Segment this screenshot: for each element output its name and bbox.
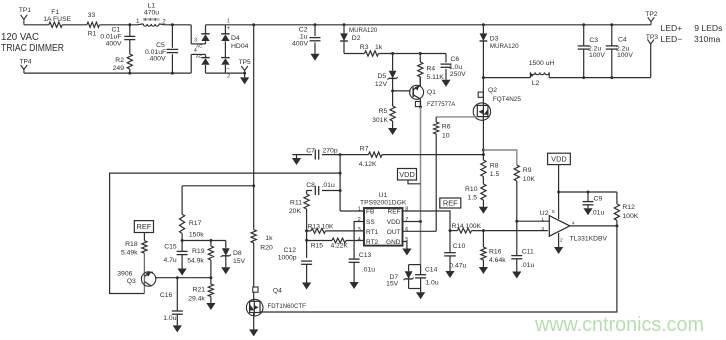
svg-text:4.7u: 4.7u: [163, 257, 176, 264]
resistor R19 54.9k: [210, 241, 212, 247]
svg-text:1500 uH: 1500 uH: [529, 60, 555, 67]
svg-text:R18: R18: [125, 241, 138, 248]
svg-text:4.12K: 4.12K: [359, 161, 377, 168]
svg-text:C10: C10: [453, 243, 466, 250]
op-amp U1 controller TPS92001DGK: [364, 208, 403, 246]
svg-text:F1: F1: [51, 9, 59, 16]
capacitor C1 0.01uF 400V: [129, 25, 131, 37]
wire divider node: [182, 240, 226, 242]
svg-text:1000p: 1000p: [278, 255, 297, 262]
svg-text:R1: R1: [88, 31, 97, 38]
capacitor C13 .01u: [349, 258, 360, 260]
inductor L1 470u: [137, 23, 143, 26]
svg-text:Q4: Q4: [273, 287, 282, 294]
svg-text:3: 3: [194, 37, 197, 43]
svg-text:100K: 100K: [622, 213, 638, 220]
svg-text:1.0u: 1.0u: [425, 280, 438, 287]
svg-text:100V: 100V: [617, 52, 633, 59]
svg-text:4.22K: 4.22K: [331, 242, 349, 249]
diode D2 MURA120: [343, 23, 346, 26]
svg-text:470u: 470u: [144, 10, 159, 17]
wire VDD to U2: [558, 165, 560, 192]
svg-text:C2: C2: [299, 26, 308, 33]
svg-text:R16: R16: [489, 248, 502, 255]
ground below TP5: [244, 73, 246, 77]
svg-text:1.0u: 1.0u: [449, 64, 462, 71]
wire input bottom rail: [24, 72, 191, 74]
wire R6 to OUT pin: [435, 134, 437, 231]
capacitor C5 0.01uF 400V: [171, 25, 173, 48]
capacitor C11 .01u: [516, 221, 518, 255]
svg-text:10: 10: [442, 133, 450, 140]
svg-text:C11: C11: [522, 248, 534, 255]
wire pin7 VDD: [403, 221, 421, 223]
wire: [62, 24, 87, 26]
svg-text:REF: REF: [443, 199, 458, 208]
svg-text:1A FUSE: 1A FUSE: [43, 16, 71, 23]
svg-text:54.9k: 54.9k: [187, 257, 204, 264]
net label REF (left): [134, 221, 153, 233]
svg-text:.01u: .01u: [362, 266, 375, 273]
svg-text:C16: C16: [160, 292, 173, 299]
net label VDD (U1): [398, 169, 417, 181]
wire pin5 GND ground: [403, 242, 407, 249]
wire Q2 source down to sense: [482, 117, 484, 160]
svg-text:R10: R10: [465, 186, 478, 193]
wire U2 V+ pin: [558, 192, 560, 219]
svg-text:Q1: Q1: [427, 89, 436, 96]
wire R9 top link (gray): [483, 150, 516, 165]
svg-text:270p: 270p: [323, 148, 338, 155]
svg-text:1k: 1k: [265, 235, 273, 242]
wire FB long feedback line: [110, 173, 341, 293]
svg-text:9 LEDs: 9 LEDs: [694, 23, 722, 33]
svg-text:R5: R5: [379, 108, 388, 115]
svg-text:R2: R2: [115, 57, 124, 64]
svg-text:1k: 1k: [375, 44, 383, 51]
zener diode D5 12V: [392, 54, 394, 71]
wire FB vertical: [339, 155, 341, 211]
node TP3 test point: [650, 44, 652, 78]
svg-text:TL331KDBV: TL331KDBV: [570, 235, 608, 242]
svg-text:310ma: 310ma: [694, 34, 720, 44]
wire R3 node line: [344, 53, 365, 55]
svg-text:1: 1: [541, 216, 544, 222]
capacitor C3 2.2u 100V: [582, 23, 585, 26]
resistor R8 1.5: [481, 160, 486, 177]
svg-text:LED+: LED+: [661, 23, 683, 33]
svg-text:C6: C6: [451, 56, 460, 63]
svg-text:400V: 400V: [150, 56, 166, 63]
svg-text:5.49k: 5.49k: [121, 250, 138, 257]
svg-text:10K: 10K: [523, 176, 536, 183]
svg-text:20K: 20K: [289, 208, 302, 215]
svg-text:C12: C12: [284, 247, 297, 254]
ground at C7: [296, 155, 298, 158]
capacitor C9 .01u: [587, 192, 589, 202]
resistor R11 20K: [306, 191, 308, 195]
svg-text:C8: C8: [306, 182, 315, 189]
svg-text:R20: R20: [260, 244, 273, 251]
svg-text:R11: R11: [290, 200, 302, 207]
node TP2 test point: [650, 22, 652, 25]
resistor R10 1.5: [481, 184, 486, 200]
svg-text:Q3: Q3: [127, 278, 136, 285]
resistor R16 4.64k: [482, 231, 484, 247]
svg-text:D3: D3: [490, 35, 499, 42]
capacitor C6 1.0u 250V: [445, 54, 447, 63]
resistor R13 10K: [307, 230, 311, 232]
svg-text:D2: D2: [352, 35, 361, 42]
wire VDD rail to clamp: [409, 264, 421, 266]
resistor R3 1k: [365, 51, 379, 56]
zener diode D7 15V: [408, 265, 410, 272]
wire Q3 collector line: [155, 277, 211, 279]
svg-text:FDT1N60CTF: FDT1N60CTF: [268, 303, 306, 310]
svg-text:R7: R7: [360, 146, 369, 153]
resistor R21 29.4k: [210, 278, 212, 284]
wire Q4 source ground: [253, 313, 255, 330]
wire pin2 SS to C13: [354, 222, 364, 260]
svg-text:U1: U1: [379, 192, 388, 199]
svg-text:TP5: TP5: [239, 59, 251, 66]
op-amp U2 TL331KDBV: [549, 216, 570, 237]
capacitor C4 2.2u 100V: [610, 23, 613, 26]
capacitor C12 1000p: [301, 260, 312, 262]
svg-text:1.5: 1.5: [468, 195, 478, 202]
svg-text:R4: R4: [427, 65, 436, 72]
svg-text:1: 1: [136, 18, 140, 25]
svg-text:−: −: [226, 67, 230, 73]
transistor Q1 FZT7577A (PNP): [410, 85, 424, 99]
svg-text:FB: FB: [366, 209, 374, 216]
svg-text:REF: REF: [388, 209, 401, 216]
capacitor C10 0.47u: [449, 231, 451, 253]
transistor Q4 FDT1N60CTF (NMOS): [253, 287, 258, 292]
wire U2 gnd pin: [558, 233, 560, 247]
resistor R4 5.11K: [419, 54, 421, 63]
svg-text:C7: C7: [306, 148, 315, 155]
svg-text:R9: R9: [523, 167, 532, 174]
ground clamp: [420, 289, 422, 293]
diode D3 MURA120: [482, 23, 485, 26]
wire VDD top link: [559, 191, 617, 193]
svg-text:OUT: OUT: [387, 229, 401, 236]
svg-text:D4: D4: [231, 35, 240, 42]
svg-text:15V: 15V: [233, 258, 246, 265]
resistor R1 33: [87, 22, 100, 27]
svg-text:TP2: TP2: [645, 11, 657, 18]
svg-text:R19: R19: [192, 248, 205, 255]
svg-text:TP1: TP1: [19, 7, 31, 14]
svg-text:AC: AC: [196, 54, 203, 59]
wire drain feed from + rail: [253, 25, 255, 230]
wire Q1 emitter to VDD net (gray): [419, 106, 422, 109]
svg-text:R6: R6: [442, 124, 451, 131]
svg-text:HD04: HD04: [231, 43, 249, 50]
svg-text:100V: 100V: [589, 52, 605, 59]
node TP1 test point: [23, 19, 25, 24]
svg-text:L1: L1: [148, 2, 156, 9]
svg-text:VDD: VDD: [399, 170, 415, 179]
node TP5 test point: [244, 71, 246, 74]
wire: [379, 53, 447, 55]
svg-text:TP4: TP4: [20, 58, 32, 65]
svg-text:Q2: Q2: [488, 87, 497, 94]
svg-text:R15: R15: [311, 242, 323, 249]
svg-text:+: +: [227, 26, 231, 32]
net label VDD (U2): [548, 153, 571, 164]
resistor R6 10: [435, 117, 437, 122]
wire comparator + input: [517, 220, 550, 222]
svg-text:TPS92001DGK: TPS92001DGK: [360, 200, 407, 207]
diode D4a (left top): [205, 25, 207, 34]
svg-text:FQT4N25: FQT4N25: [493, 96, 521, 103]
svg-text:250V: 250V: [450, 71, 466, 78]
svg-text:C9: C9: [594, 196, 603, 203]
svg-text:LED−: LED−: [661, 34, 683, 44]
wire jog to bridge AC1: [190, 25, 192, 44]
wire R18 to Q3 base (gray): [143, 253, 145, 293]
svg-text:U2: U2: [540, 210, 549, 217]
svg-text:33: 33: [88, 12, 96, 19]
svg-text:R12: R12: [622, 204, 635, 211]
node switch node junction: [482, 76, 485, 79]
svg-text:GND: GND: [386, 239, 401, 246]
svg-text:AC: AC: [196, 44, 203, 49]
resistor R5 301K: [392, 91, 394, 106]
svg-text:L2: L2: [532, 80, 540, 87]
svg-text:C13: C13: [359, 252, 372, 259]
svg-text:400V: 400V: [106, 40, 122, 47]
wire VDD label link: [408, 180, 421, 184]
wire input top rail: [24, 24, 49, 26]
svg-text:R17: R17: [189, 220, 202, 227]
svg-text:1.0u: 1.0u: [163, 315, 176, 322]
wire bridge bottom (-): [206, 72, 245, 74]
wire R17 top tap: [182, 185, 254, 187]
svg-text:www.cntronics.com: www.cntronics.com: [534, 313, 704, 336]
svg-text:2: 2: [227, 74, 230, 80]
svg-text:.01u: .01u: [591, 209, 604, 216]
package mark Q1: [415, 101, 420, 106]
wire clamp bottom: [409, 288, 421, 290]
resistor R2 249: [127, 54, 132, 69]
svg-text:R13 10K: R13 10K: [308, 223, 334, 230]
svg-text:120 VAC: 120 VAC: [1, 32, 39, 43]
svg-text:.01u: .01u: [521, 262, 534, 269]
svg-text:3906: 3906: [117, 271, 132, 278]
svg-text:TRIAC DIMMER: TRIAC DIMMER: [1, 43, 64, 54]
svg-text:C3: C3: [589, 37, 598, 44]
svg-text:TP3: TP3: [646, 34, 658, 41]
svg-text:MURA120: MURA120: [349, 27, 378, 34]
wire jog to bridge AC2: [190, 54, 192, 73]
svg-text:5: 5: [552, 209, 555, 215]
svg-text:R14 100K: R14 100K: [452, 223, 482, 230]
wire LED- rail: [549, 77, 651, 79]
svg-text:R8: R8: [490, 163, 499, 170]
svg-text:1: 1: [227, 18, 230, 24]
resistor R20 1k: [251, 230, 256, 243]
wire REF node: [449, 229, 452, 232]
resistor R15 4.22K: [307, 240, 332, 242]
svg-text:REF: REF: [137, 222, 152, 231]
capacitor C7 270p: [314, 150, 316, 160]
svg-text:0.47u: 0.47u: [449, 262, 466, 269]
svg-text:D5: D5: [377, 73, 386, 80]
svg-text:3: 3: [541, 226, 544, 232]
capacitor C2 .1u 400V: [314, 23, 317, 26]
wire pin6 OUT: [403, 230, 437, 232]
svg-text:3: 3: [358, 227, 361, 233]
capacitor C16 1.0u: [176, 278, 178, 311]
svg-text:4.64k: 4.64k: [489, 257, 506, 264]
transistor Q2 FQT4N25 (NMOS): [482, 78, 484, 106]
capacitor C15 4.7u: [181, 241, 183, 252]
wire gate drive to Q2 (gray): [436, 116, 477, 118]
diode D4c (right top): [224, 25, 226, 34]
resistor R12 100K: [616, 192, 618, 204]
resistor R9 10K: [514, 165, 519, 181]
svg-text:4: 4: [358, 237, 361, 243]
wire: [165, 24, 192, 26]
wire sense line: [292, 154, 312, 156]
capacitor C14 1.0u: [420, 265, 422, 275]
svg-text:15V: 15V: [386, 281, 399, 288]
svg-text:150k: 150k: [189, 231, 204, 238]
svg-text:249: 249: [113, 65, 125, 72]
svg-text:VDD: VDD: [551, 155, 567, 164]
svg-text:MURA120: MURA120: [490, 43, 519, 50]
svg-text:RT1: RT1: [366, 229, 379, 236]
svg-text:RT2: RT2: [366, 239, 379, 246]
svg-text:FZT7577A: FZT7577A: [427, 101, 456, 108]
wire feedback to Q4 gate: [260, 226, 617, 312]
svg-text:C14: C14: [425, 266, 438, 273]
zener diode D8 15V: [225, 241, 227, 249]
resistor R18 5.49k: [143, 233, 145, 241]
svg-text:D8: D8: [233, 250, 242, 257]
svg-text:400V: 400V: [292, 41, 308, 48]
wire pin8 REF: [403, 211, 451, 231]
svg-text:.01u: .01u: [322, 182, 335, 189]
svg-text:C15: C15: [164, 243, 177, 250]
wire U2 output: [570, 225, 617, 227]
net label REF (U1): [440, 198, 461, 208]
wire pin1 FB: [340, 210, 364, 212]
fuse F1: [49, 22, 62, 27]
capacitor C8 .01u: [307, 190, 312, 192]
svg-text:C4: C4: [618, 37, 627, 44]
svg-text:R21: R21: [193, 286, 206, 293]
svg-text:SS: SS: [366, 219, 375, 226]
wire rectified + rail: [225, 24, 651, 26]
resistor R14 100K: [450, 230, 458, 232]
wire: [100, 24, 138, 26]
svg-text:29.4k: 29.4k: [188, 295, 205, 302]
svg-text:12V: 12V: [375, 81, 388, 88]
transistor Q3 3906 (PNP): [141, 272, 155, 286]
diode D4d (right bottom): [221, 57, 229, 59]
wire bridge top (+): [206, 24, 226, 26]
svg-text:VDD: VDD: [387, 219, 401, 226]
inductor L2 1500 uH: [483, 77, 530, 79]
svg-text:2: 2: [560, 238, 563, 244]
svg-text:6: 6: [405, 227, 408, 233]
svg-text:R3: R3: [360, 44, 369, 51]
resistor R17 150k: [181, 186, 183, 214]
svg-text:301K: 301K: [372, 117, 388, 124]
node TP4 test point: [23, 70, 25, 74]
diode D4b (left bottom): [205, 54, 207, 57]
svg-text:1.5: 1.5: [490, 171, 500, 178]
resistor R7 4.12K: [369, 152, 383, 157]
